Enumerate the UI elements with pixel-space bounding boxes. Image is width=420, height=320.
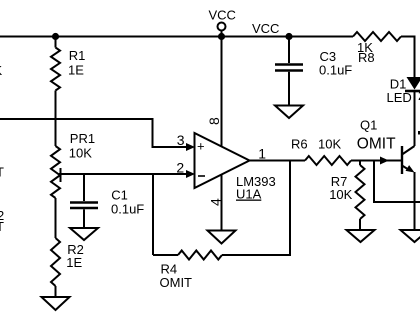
wire VCC rail <box>0 36 353 38</box>
ground pin 4 <box>208 231 236 244</box>
node VCC symbol <box>209 8 236 41</box>
pin number 2 fragment at edge <box>418 88 420 103</box>
svg-text:R6: R6 <box>291 137 308 152</box>
junction C3/rail <box>285 33 292 40</box>
svg-text:1: 1 <box>258 146 266 162</box>
resistor R1 <box>51 37 85 91</box>
resistor R7 <box>329 161 364 231</box>
ground R7 <box>347 230 375 242</box>
pin 3 number <box>177 132 185 148</box>
svg-text:PR1: PR1 <box>70 131 95 146</box>
diode D1 <box>387 76 420 105</box>
capacitor C1 <box>70 174 144 228</box>
resistor R8 <box>353 32 401 65</box>
pin 2 arrowhead <box>186 170 195 178</box>
svg-text:1E: 1E <box>68 63 84 78</box>
pin 2 number <box>176 160 184 176</box>
pin 8 wire <box>221 37 223 147</box>
wire wiper to pin 2 <box>59 173 187 175</box>
edge fragment near collector <box>418 131 420 135</box>
resistor R6 <box>291 137 351 166</box>
edge fragment T upper <box>0 165 4 180</box>
op-amp U1A <box>195 133 276 202</box>
svg-text:3: 3 <box>177 132 185 148</box>
wire R6 to Q1 base <box>351 160 401 162</box>
transistor Q1 <box>357 117 415 174</box>
svg-text:0.1uF: 0.1uF <box>111 201 144 216</box>
svg-text:R1: R1 <box>69 48 86 63</box>
svg-text:LED: LED <box>387 90 412 105</box>
ground C1 <box>70 228 98 240</box>
wire rail to D1 <box>401 37 415 78</box>
resistor R4 <box>153 174 222 290</box>
wire base bypass <box>374 161 420 203</box>
svg-text:VCC: VCC <box>209 8 236 23</box>
node VCC net label <box>252 21 279 36</box>
pin 3 arrowhead <box>186 143 195 151</box>
wire emitter to ground <box>414 172 416 230</box>
pin 4 wire <box>221 174 223 230</box>
svg-text:Q1: Q1 <box>360 117 377 132</box>
edge fragment K <box>0 63 3 78</box>
svg-text:10K: 10K <box>329 187 352 202</box>
wire D1 to collector <box>414 92 416 146</box>
pin 1 output wire <box>250 160 306 162</box>
svg-text:1E: 1E <box>66 255 82 270</box>
wire R4 feedback tap <box>222 161 290 256</box>
junction R1/rail <box>52 33 59 40</box>
svg-text:K: K <box>0 63 3 78</box>
svg-text:C1: C1 <box>111 187 128 202</box>
svg-text:T: T <box>0 219 4 234</box>
svg-text:OMIT: OMIT <box>160 275 193 290</box>
wire R1 to PR1 <box>55 91 57 147</box>
base arrowhead <box>380 157 389 165</box>
wire input to pin 3 <box>0 119 187 147</box>
ground Q1 emitter <box>401 230 420 242</box>
potentiometer PR1 <box>51 131 95 198</box>
svg-text:OMIT: OMIT <box>357 136 396 153</box>
pin 8 number <box>206 117 222 125</box>
svg-text:8: 8 <box>206 117 222 125</box>
svg-text:10K: 10K <box>318 137 341 152</box>
svg-text:U1A: U1A <box>236 187 262 202</box>
svg-text:0.1uF: 0.1uF <box>319 63 352 78</box>
svg-text:10K: 10K <box>69 146 92 161</box>
svg-text:4: 4 <box>208 198 224 206</box>
svg-text:T: T <box>0 165 4 180</box>
svg-text:+: + <box>197 139 205 154</box>
edge fragment T lower <box>0 219 4 234</box>
capacitor C3 <box>275 37 352 106</box>
edge fragment 2 <box>0 208 4 223</box>
ground R2 <box>42 297 70 310</box>
pin 4 number <box>208 198 224 206</box>
svg-text:R8: R8 <box>358 50 375 65</box>
resistor R2 <box>51 198 84 297</box>
pin 1 number <box>258 146 266 162</box>
svg-text:2: 2 <box>176 160 184 176</box>
svg-text:VCC: VCC <box>252 21 279 36</box>
ground C3 <box>275 106 303 119</box>
